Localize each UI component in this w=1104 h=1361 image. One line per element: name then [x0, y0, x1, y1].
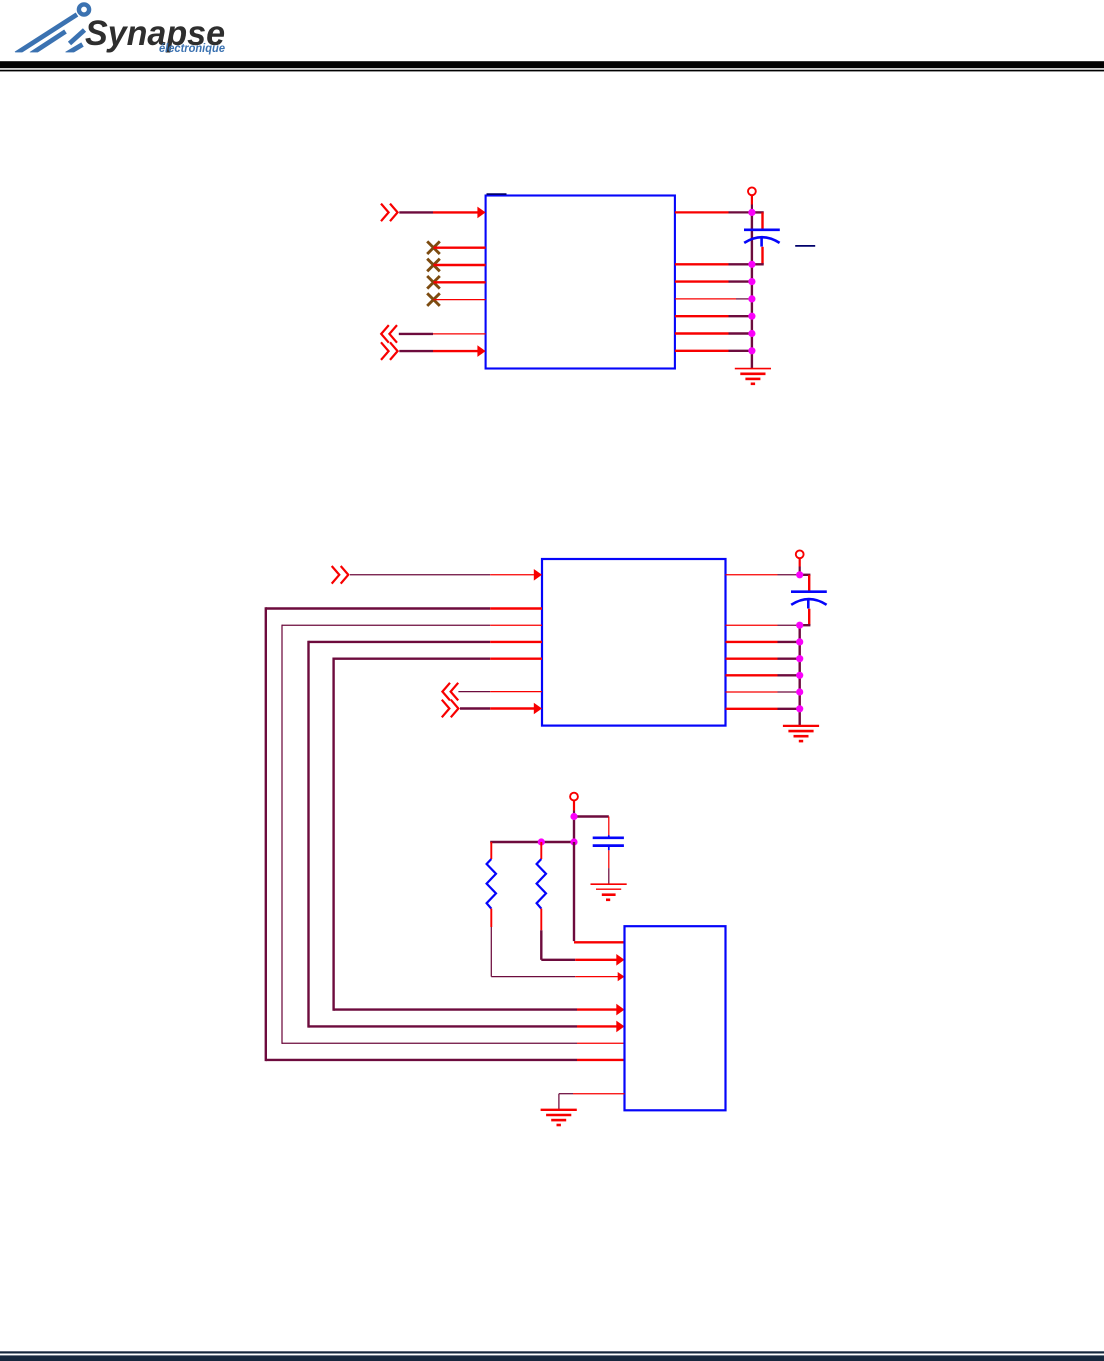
wire U2 pin to VCC bus (row 8) [726, 708, 800, 710]
resistor R1 top lead [490, 842, 492, 859]
wire P4 to U2 [458, 691, 542, 693]
resistor R2 bottom lead and wire to U3 [541, 909, 617, 960]
arrowhead P3 wire [534, 569, 542, 581]
wire U1 pin to VCC bus (row 4) [675, 280, 752, 282]
arrowhead P1B wire [477, 345, 485, 357]
wire U2 pin to VCC bus (row 7) [726, 691, 800, 693]
wire X4 to U1 [434, 299, 486, 301]
resistor R2 [537, 859, 546, 909]
C1 value placeholder line [795, 245, 815, 247]
IC U3 [625, 926, 726, 1110]
wire P2 to U1 [399, 333, 433, 335]
junction on U2 VCC bus (row 5) [796, 655, 803, 662]
junction on VCC bus (row 7) [748, 330, 755, 337]
wire VCC3 rail down to U3 top pin [574, 842, 625, 942]
junction on VCC bus (row 5) [748, 295, 755, 302]
net wire W5 (U2 to U3, innermost) [334, 658, 625, 1016]
junction on U2 VCC bus (row 0) [796, 571, 803, 578]
svg-text:électronique: électronique [159, 41, 225, 55]
no-connect X1 [427, 241, 440, 254]
ground GND3 [591, 884, 627, 900]
wire U2 pin to VCC bus (row 4) [726, 641, 800, 643]
wire U1 pin to VCC bus (row 7) [675, 332, 752, 334]
capacitor C1 jog bottom [752, 247, 764, 264]
resistor R1 bottom lead and wire to U3 [491, 909, 618, 977]
power symbol VCC3 [570, 793, 578, 801]
wire U2 pin to VCC bus (row 6) [726, 674, 800, 676]
wire U3 ground pin [559, 1094, 625, 1110]
VCC2 stub [799, 558, 801, 571]
resistor R1 [487, 859, 496, 909]
capacitor C2 jog bottom [800, 609, 811, 626]
junction at R2 top [538, 838, 545, 845]
arrowhead P5 wire [534, 703, 542, 715]
junction on U2 VCC bus (row 3) [796, 622, 803, 629]
capacitor C3 [593, 835, 624, 850]
capacitor C2 jog top [800, 575, 811, 592]
capacitor C1 [744, 230, 780, 247]
wire P5 to U2 [460, 707, 536, 709]
IC U2 [542, 559, 726, 726]
wire P3 to U2 [350, 574, 536, 576]
capacitor C1 jog top [752, 212, 764, 229]
port P1 (input, to U1 pin 1) [381, 204, 398, 222]
VCC bus vertical (U2 right) [799, 625, 801, 726]
wire X3 to U1 [434, 281, 486, 283]
wire U1 pin to VCC bus (row 3) [675, 263, 752, 265]
wire U1 pin to VCC bus (row 6) [675, 315, 752, 317]
capacitor C2 [791, 592, 827, 609]
IC U1 [486, 196, 675, 369]
junction on VCC bus (row 0) [748, 209, 755, 216]
wire U1 pin to VCC bus (row 0) [675, 211, 752, 213]
no-connect X2 [427, 259, 440, 272]
junction on VCC bus (row 4) [748, 278, 755, 285]
wire U1 pin to VCC bus (row 8) [675, 350, 752, 352]
no-connect X4 [427, 293, 440, 306]
junction on U2 VCC bus (row 7) [796, 688, 803, 695]
wire U1 pin to VCC bus (row 5) [675, 298, 752, 300]
ground GND2 [783, 726, 819, 741]
VCC3 stub [573, 801, 575, 815]
wire U2 pin to VCC bus (row 3) [726, 624, 800, 626]
port P1B (input, to U1) [381, 342, 398, 360]
junction VCC3 node [570, 813, 577, 820]
wire P1B to U1 [399, 350, 478, 352]
footer thin rule [0, 1351, 1104, 1353]
wire VCC3 node to C3 [574, 817, 609, 836]
header thin rule [0, 70, 1104, 72]
junction on VCC bus (row 3) [748, 261, 755, 268]
arrowhead R1 wire at U3 [618, 972, 625, 981]
header thick rule [0, 61, 1104, 68]
VCC bus vertical (U1 right) [751, 212, 753, 368]
net wire W4 (U2 to U3) [309, 641, 625, 1032]
port P3 (input, to U2) [332, 566, 349, 584]
junction on U2 VCC bus (row 8) [796, 705, 803, 712]
junction at C3 tap [570, 838, 577, 845]
arrowhead R2 wire at U3 [616, 954, 624, 966]
power symbol VCC1 [748, 187, 756, 195]
wire VCC3 vertical to resistor row [573, 817, 575, 843]
wire U2 pin to VCC bus (row 0) [726, 574, 800, 576]
resistor R2 top lead [540, 842, 542, 859]
net wire W3 (U2 to U3) [282, 625, 625, 1044]
ground GND4 [541, 1110, 577, 1125]
wire X2 to U1 [434, 264, 486, 266]
port P5 (input, to U2) [442, 700, 459, 718]
wire P1 to U1 [399, 211, 478, 213]
U1 refdes placeholder line [487, 193, 507, 195]
VCC1 stub [751, 195, 753, 209]
wire X1 to U1 [434, 246, 486, 248]
power symbol VCC2 [796, 550, 804, 558]
junction on U2 VCC bus (row 4) [796, 638, 803, 645]
logo icon: circuit-trace diagonals with pad circle [16, 4, 89, 54]
port P4 (output, from U2) [442, 683, 458, 701]
ground GND1 [735, 369, 771, 384]
junction on VCC bus (row 8) [748, 347, 755, 354]
wire resistor top rail [490, 841, 574, 843]
port P2 (output, from U1) [381, 325, 397, 343]
wire C3 to ground [608, 850, 610, 884]
footer bar [0, 1355, 1104, 1361]
junction on VCC bus (row 6) [748, 313, 755, 320]
arrowhead P1 wire [477, 207, 485, 219]
no-connect X3 [427, 276, 440, 289]
wire P2 to U1 thin segment [433, 333, 486, 335]
net wire W2 (U2 to U3, outermost) [266, 607, 625, 1061]
junction on U2 VCC bus (row 6) [796, 672, 803, 679]
wire U2 pin to VCC bus (row 5) [726, 658, 800, 660]
